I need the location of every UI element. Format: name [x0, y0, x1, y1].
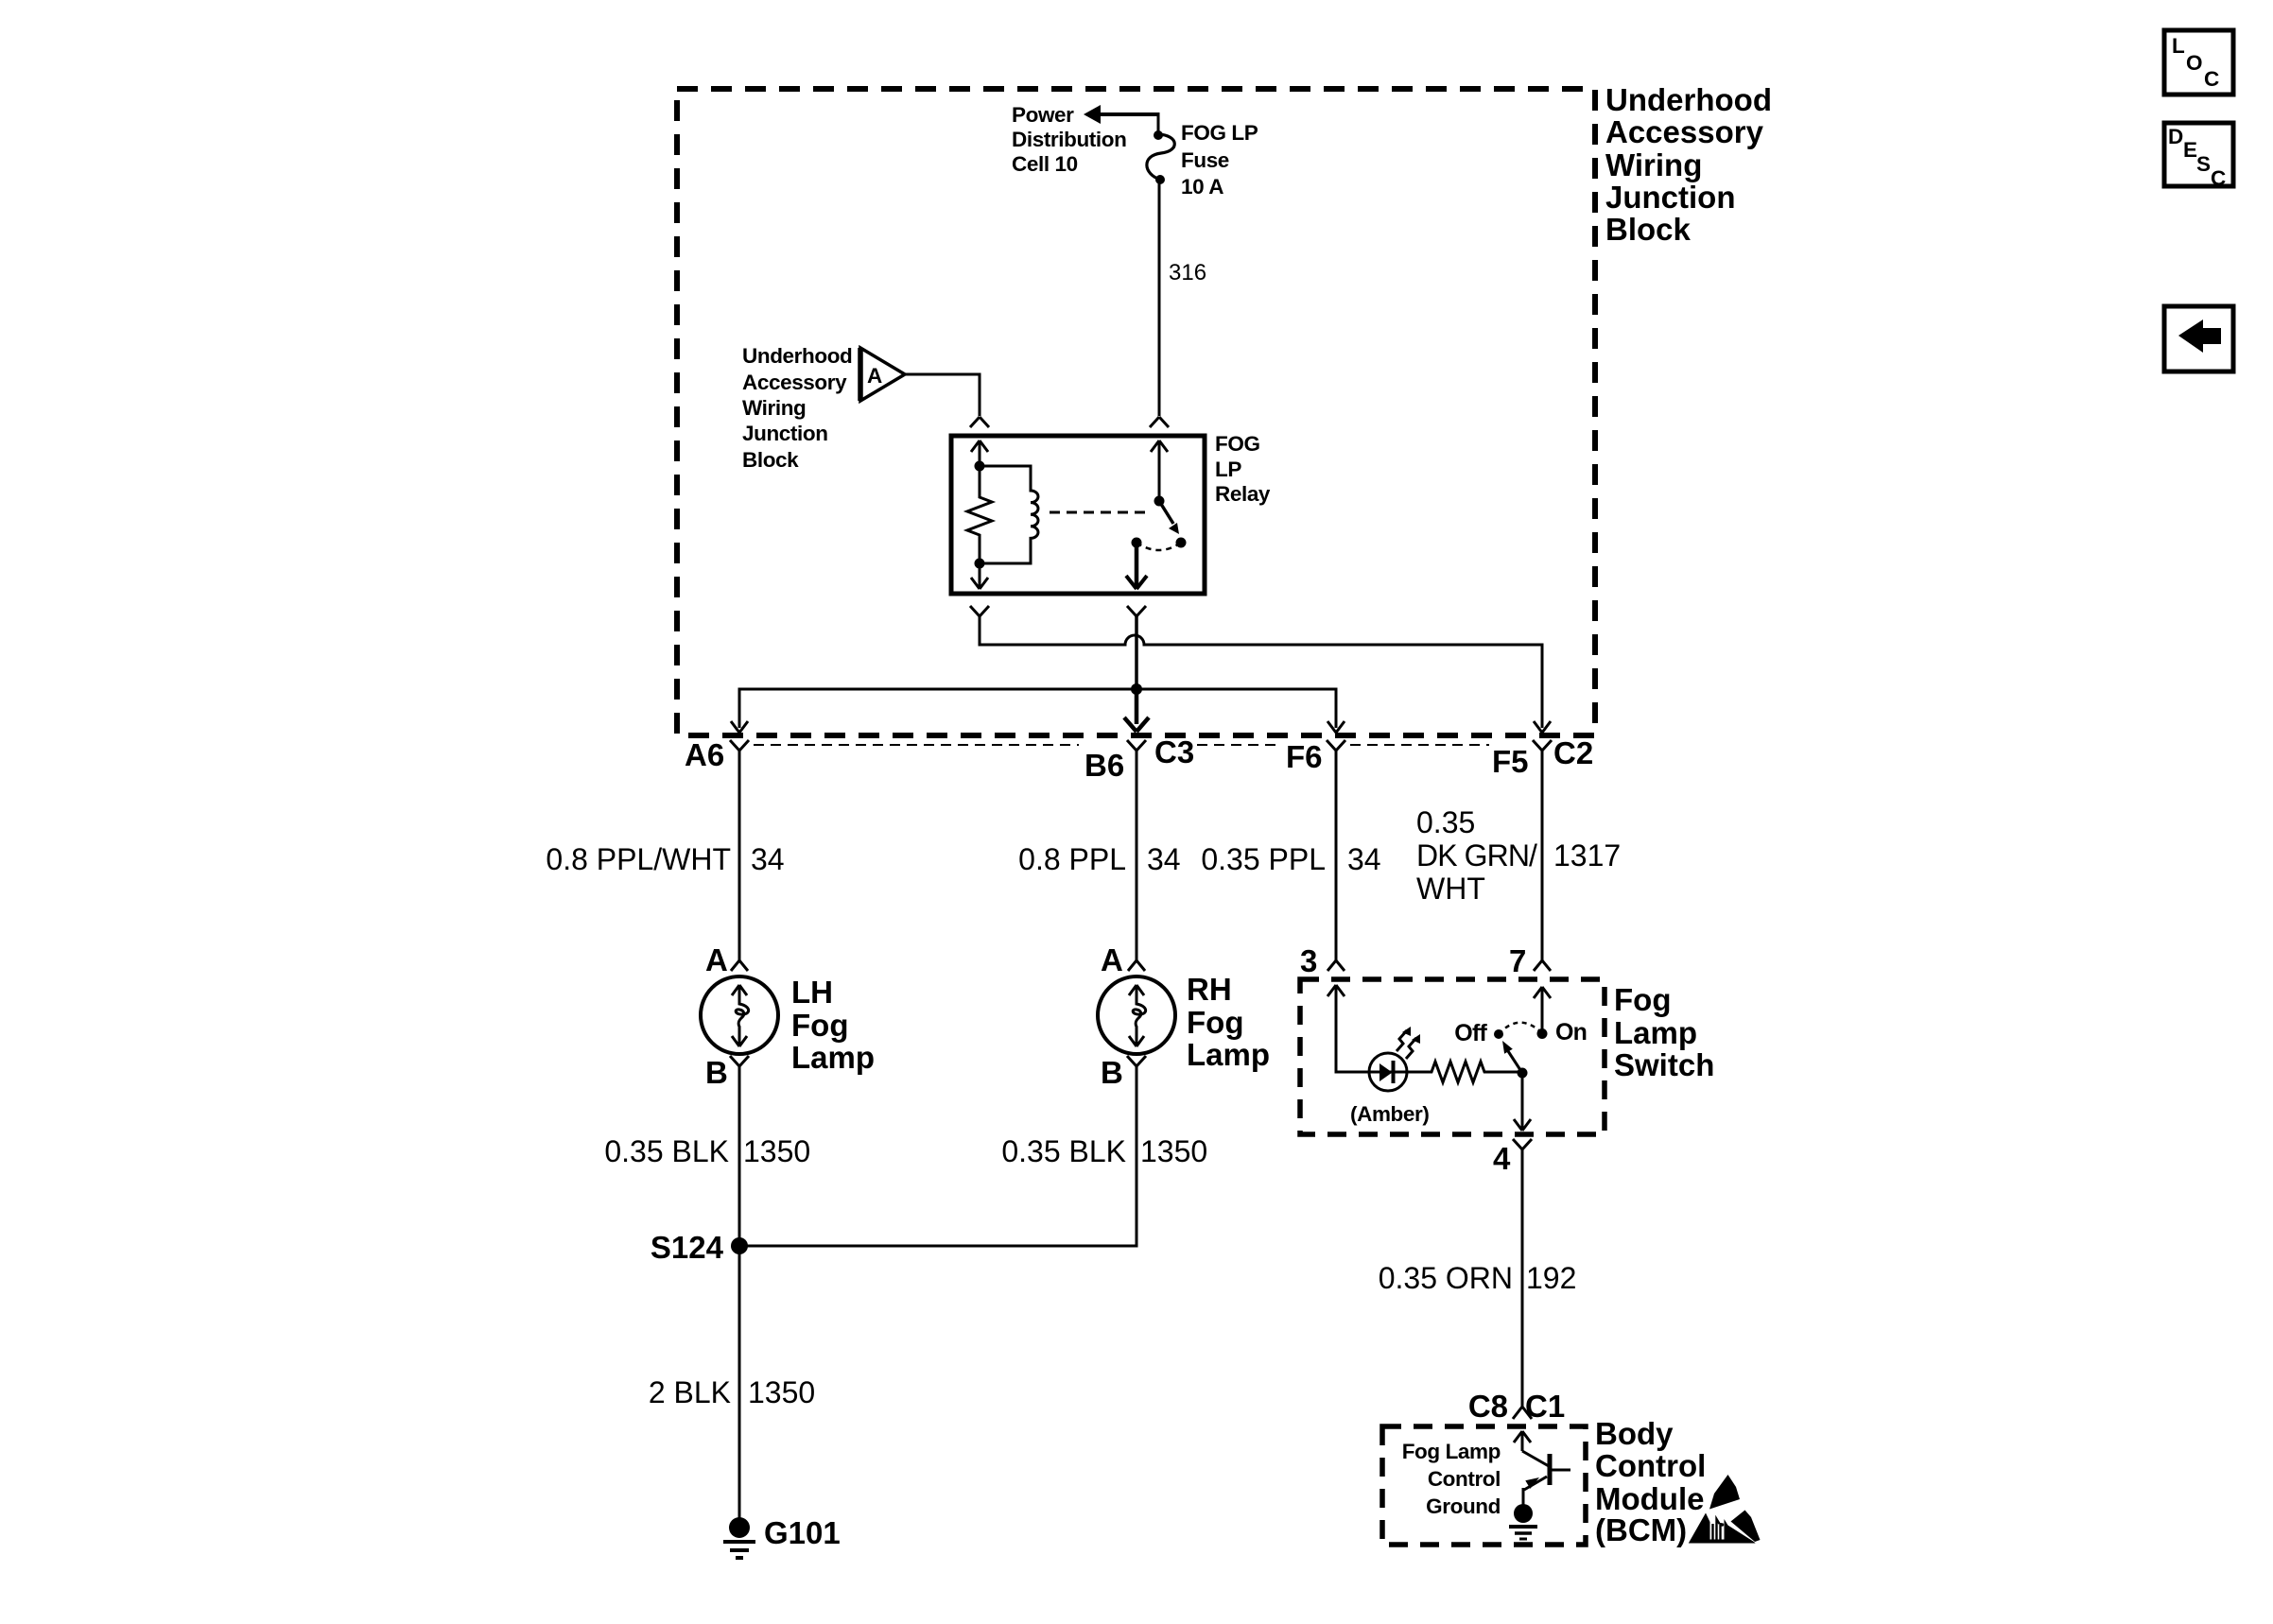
wire label 0.35 PPL 34 [1201, 842, 1380, 876]
fork below LH lamp B [730, 1056, 749, 1246]
wire relay common down to junction [1135, 616, 1138, 689]
wire relay left pin down and right to C2 with hop [980, 616, 1542, 728]
wire 316 fuse to relay [1158, 180, 1161, 416]
relay pin arrow top left (up) [971, 441, 988, 466]
relay switch arm [1159, 501, 1179, 534]
fork below relay left pin [970, 606, 989, 616]
svg-text:Wiring: Wiring [742, 396, 806, 420]
svg-text:Fuse: Fuse [1181, 148, 1229, 172]
fork below switch pin 4 [1513, 1139, 1532, 1407]
wire label 0.8 PPL/WHT 34 [546, 842, 784, 876]
switch dashed arc Off to On [1499, 1023, 1542, 1034]
svg-text:B: B [705, 1055, 728, 1090]
BCM internal ground [1509, 1488, 1537, 1539]
label Fog Lamp Switch [1614, 982, 1714, 1082]
icon back arrow [2164, 306, 2233, 371]
wire label 0.35 BLK 1350 (LH) [604, 1134, 810, 1168]
wire label 0.35 BLK 1350 (RH) [1001, 1134, 1207, 1168]
svg-text:Control: Control [1428, 1467, 1501, 1491]
svg-text:Lamp: Lamp [791, 1040, 875, 1075]
icon LOC [2164, 30, 2233, 95]
svg-text:1317: 1317 [1553, 838, 1621, 872]
icon DESC [2164, 123, 2233, 190]
fork into LH lamp A [731, 960, 748, 971]
power distribution arrow [1084, 105, 1158, 134]
BCM pin arrow (up) [1514, 1431, 1531, 1451]
svg-text:Switch: Switch [1614, 1047, 1714, 1082]
svg-text:E: E [2183, 138, 2197, 162]
svg-text:0.35 PPL: 0.35 PPL [1201, 842, 1326, 876]
svg-text:Lamp: Lamp [1614, 1015, 1697, 1050]
svg-text:0.35 BLK: 0.35 BLK [1001, 1134, 1126, 1168]
svg-text:1350: 1350 [1140, 1134, 1207, 1168]
svg-text:A: A [705, 942, 728, 977]
svg-text:A: A [867, 364, 882, 388]
svg-text:Block: Block [1605, 212, 1692, 247]
fork into RH lamp A [1128, 960, 1145, 971]
label Fog Lamp Control Ground [1402, 1440, 1501, 1518]
BCM dashed box [1382, 1426, 1586, 1545]
svg-text:B: B [1101, 1055, 1123, 1090]
svg-text:F5: F5 [1492, 744, 1529, 779]
svg-text:Body: Body [1595, 1416, 1674, 1451]
fuse FOG LP 10A [1147, 130, 1174, 184]
ground G101 [723, 1515, 841, 1558]
relay actuation dashed line [1050, 511, 1151, 514]
label Underhood Accessory Wiring Junction Block (left) [742, 344, 852, 472]
wire label 0.8 PPL 34 [1018, 842, 1180, 876]
label Underhood Accessory Wiring Junction Block (right) [1605, 82, 1772, 247]
relay switch pivot [1154, 496, 1165, 507]
svg-text:0.35: 0.35 [1416, 805, 1475, 839]
svg-text:FOG LP: FOG LP [1181, 121, 1258, 145]
svg-text:Cell 10: Cell 10 [1012, 152, 1078, 176]
svg-text:Junction: Junction [742, 422, 828, 445]
svg-text:Underhood: Underhood [1605, 82, 1772, 117]
switch common node [1518, 1068, 1528, 1079]
svg-text:DK GRN/: DK GRN/ [1416, 838, 1537, 872]
svg-text:34: 34 [751, 842, 785, 876]
svg-text:Fog: Fog [1614, 982, 1671, 1017]
arrow into F6 [1327, 721, 1345, 733]
svg-text:Control: Control [1595, 1448, 1706, 1483]
relay switch common contact [1132, 538, 1142, 548]
svg-text:Power: Power [1012, 103, 1074, 127]
switch pin 4 wire (down) [1514, 1073, 1531, 1131]
arrow into A6 [731, 721, 748, 733]
fork into switch pin 7 [1534, 960, 1551, 971]
LH fog lamp [701, 976, 778, 1054]
svg-text:2 BLK: 2 BLK [649, 1375, 731, 1409]
junction node below relay [1131, 683, 1142, 695]
connector A triangle [860, 348, 905, 401]
svg-text:Fog Lamp: Fog Lamp [1402, 1440, 1501, 1463]
svg-text:0.8 PPL/WHT: 0.8 PPL/WHT [546, 842, 731, 876]
svg-text:3: 3 [1300, 943, 1317, 978]
fork below RH lamp B [1127, 1056, 1146, 1246]
svg-text:4: 4 [1493, 1141, 1511, 1176]
wire S124 to G101 [738, 1246, 741, 1519]
ESD sensitive symbol [1689, 1475, 1761, 1544]
wire label 2 BLK 1350 [649, 1375, 815, 1409]
svg-text:C3: C3 [1154, 734, 1194, 769]
svg-text:10 A: 10 A [1181, 175, 1223, 199]
svg-text:Module: Module [1595, 1481, 1704, 1516]
svg-text:Relay: Relay [1215, 482, 1271, 506]
svg-text:B6: B6 [1084, 748, 1124, 783]
LED indicator (Amber) [1369, 1027, 1420, 1091]
svg-text:316: 316 [1169, 260, 1206, 285]
switch pin 7 wire from On [1534, 987, 1551, 1033]
svg-text:192: 192 [1526, 1261, 1576, 1295]
relay box FOG LP Relay [951, 436, 1205, 594]
label RH Fog Lamp [1187, 972, 1270, 1072]
wire junction to A6 [739, 689, 1136, 728]
arrow into B6 [1124, 717, 1149, 732]
relay switch NO contact [1176, 538, 1187, 548]
svg-text:RH: RH [1187, 972, 1232, 1007]
fork below relay common pin [1127, 606, 1146, 616]
svg-text:0.35 ORN: 0.35 ORN [1379, 1261, 1513, 1295]
svg-text:34: 34 [1347, 842, 1381, 876]
relay node top of coil [975, 461, 985, 472]
svg-text:LH: LH [791, 975, 833, 1010]
svg-text:Wiring: Wiring [1605, 147, 1702, 182]
svg-text:C8: C8 [1468, 1389, 1508, 1424]
relay switch dashed arc [1136, 543, 1181, 550]
svg-text:A: A [1101, 942, 1123, 977]
relay pin arrow bottom left (down) [971, 563, 988, 589]
svg-text:Accessory: Accessory [1605, 114, 1764, 149]
svg-text:S: S [2196, 152, 2211, 176]
fork into switch pin 3 [1327, 960, 1345, 971]
label LH Fog Lamp [791, 975, 875, 1075]
svg-text:Off: Off [1454, 1020, 1487, 1046]
On contact [1537, 1019, 1588, 1045]
svg-text:Lamp: Lamp [1187, 1037, 1270, 1072]
connector fork at relay top right [1150, 417, 1169, 427]
svg-text:(BCM): (BCM) [1595, 1512, 1687, 1547]
junction block dashed box (Underhood Accessory Wiring Junction Block) [677, 89, 1595, 735]
relay coil [980, 466, 1038, 563]
svg-text:D: D [2168, 125, 2183, 148]
svg-text:7: 7 [1509, 943, 1526, 978]
BCM driver transistor [1522, 1451, 1570, 1490]
switch pin 3 arrow (up) [1327, 985, 1369, 1072]
fork below C2 [1533, 740, 1552, 960]
svg-text:WHT: WHT [1416, 872, 1485, 906]
svg-text:S124: S124 [651, 1230, 724, 1265]
connector interface dashed line [754, 744, 1489, 746]
svg-text:On: On [1555, 1019, 1587, 1045]
svg-text:0.35 BLK: 0.35 BLK [604, 1134, 729, 1168]
svg-text:Fog: Fog [791, 1008, 848, 1043]
label Body Control Module (BCM) [1595, 1416, 1706, 1547]
splice S124 [651, 1230, 748, 1265]
svg-text:C: C [2211, 166, 2226, 190]
fork below A6 [730, 740, 749, 960]
label 316 [1169, 260, 1206, 285]
wire S124 to RH lamp [739, 1066, 1136, 1246]
Off contact [1454, 1020, 1503, 1046]
svg-text:C2: C2 [1553, 735, 1593, 770]
connector fork at relay top left [970, 417, 989, 427]
svg-text:L: L [2172, 34, 2185, 58]
wire label 0.35 ORN 192 [1379, 1261, 1577, 1295]
svg-text:Ground: Ground [1426, 1494, 1501, 1518]
svg-text:Fog: Fog [1187, 1005, 1243, 1040]
svg-text:Block: Block [742, 448, 799, 472]
svg-text:Underhood: Underhood [742, 344, 852, 368]
svg-text:C: C [2204, 67, 2219, 91]
fork into BCM C1 [1513, 1407, 1532, 1419]
fog lamp switch dashed box [1300, 979, 1605, 1134]
label Power Distribution Cell 10 [1012, 103, 1126, 176]
relay node bottom of coil [975, 559, 985, 569]
svg-text:Junction: Junction [1605, 180, 1736, 215]
svg-text:O: O [2186, 51, 2202, 75]
switch arm to Off [1502, 1041, 1522, 1073]
svg-text:1350: 1350 [743, 1134, 810, 1168]
relay switch pin arrow top right (up) [1151, 441, 1168, 501]
svg-text:FOG: FOG [1215, 432, 1260, 456]
svg-text:34: 34 [1147, 842, 1181, 876]
svg-text:G101: G101 [764, 1515, 841, 1550]
wire junction down to B6 [1135, 689, 1139, 724]
fork below B6 [1127, 740, 1146, 960]
label FOG LP Relay [1215, 432, 1271, 506]
svg-text:Accessory: Accessory [742, 371, 847, 394]
relay common output arrow (down) [1126, 543, 1147, 589]
label FOG LP Fuse 10 A [1181, 121, 1258, 199]
switch resistor [1407, 1062, 1522, 1082]
svg-text:1350: 1350 [748, 1375, 815, 1409]
svg-text:F6: F6 [1286, 739, 1323, 774]
svg-text:LP: LP [1215, 458, 1241, 481]
svg-text:(Amber): (Amber) [1350, 1102, 1429, 1126]
RH fog lamp [1098, 976, 1175, 1054]
wire A triangle to relay [904, 374, 980, 416]
wire junction to F6 [1136, 689, 1336, 728]
arrow into C2 [1534, 721, 1551, 733]
wire label 0.35 DK GRN/WHT 1317 [1416, 805, 1621, 906]
fork below F6 [1327, 740, 1345, 960]
relay resistor [967, 466, 992, 563]
svg-text:A6: A6 [685, 737, 724, 772]
svg-text:Distribution: Distribution [1012, 128, 1126, 151]
svg-text:0.8 PPL: 0.8 PPL [1018, 842, 1126, 876]
